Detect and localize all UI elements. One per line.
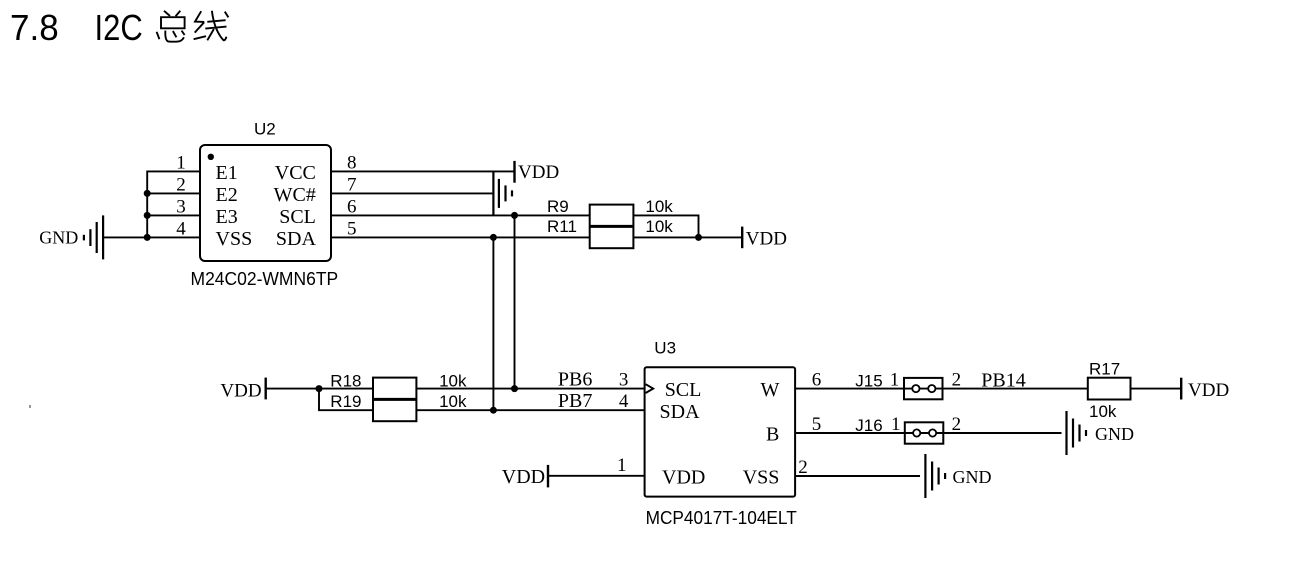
svg-text:10k: 10k xyxy=(439,371,467,390)
junction dot SCL bus xyxy=(511,212,518,219)
svg-text:I2C: I2C xyxy=(95,7,143,48)
svg-text:10k: 10k xyxy=(645,197,673,216)
ground for WC# xyxy=(493,171,512,215)
wire R9 out corner xyxy=(633,215,698,237)
svg-text:7.8: 7.8 xyxy=(10,7,59,48)
svg-text:PB6: PB6 xyxy=(558,369,592,391)
svg-text:10k: 10k xyxy=(439,392,467,411)
junction dot SDA bus xyxy=(490,234,497,241)
svg-text:5: 5 xyxy=(812,414,822,435)
svg-text:B: B xyxy=(766,424,779,446)
svg-text:2: 2 xyxy=(176,175,186,196)
jumper J15 xyxy=(904,378,943,399)
svg-text:U3: U3 xyxy=(654,339,676,358)
svg-text:WC#: WC# xyxy=(274,184,316,206)
wire GND to bus xyxy=(104,236,147,238)
svg-text:3: 3 xyxy=(176,197,186,218)
power VDD far right bar xyxy=(1180,378,1182,400)
svg-text:U2: U2 xyxy=(254,120,276,139)
wire WC# pin7 to ground xyxy=(331,192,492,194)
svg-text:R18: R18 xyxy=(330,371,361,390)
wire R18 to U3 SCL xyxy=(416,388,644,390)
wire W pin6 to J15 xyxy=(795,388,904,390)
resistor R17 xyxy=(1088,378,1131,400)
ground GND left symbol xyxy=(84,215,103,259)
svg-text:4: 4 xyxy=(176,219,186,240)
svg-text:W: W xyxy=(761,379,780,401)
svg-text:GND: GND xyxy=(39,228,78,248)
svg-text:6: 6 xyxy=(812,370,822,391)
wire VCC pin8 to VDD xyxy=(331,170,514,172)
wire VSS stub xyxy=(147,236,200,238)
svg-text:E2: E2 xyxy=(216,184,238,206)
svg-text:VDD: VDD xyxy=(746,228,787,249)
svg-text:VDD: VDD xyxy=(502,466,545,488)
wire SCL pin6 to R9 xyxy=(331,214,590,216)
svg-text:MCP4017T-104ELT: MCP4017T-104ELT xyxy=(646,508,797,528)
svg-text:M24C02-WMN6TP: M24C02-WMN6TP xyxy=(191,269,339,289)
svg-text:SDA: SDA xyxy=(276,228,317,250)
U3 clock chevron SCL xyxy=(646,384,654,393)
power VDD left of R18 bar xyxy=(265,378,267,400)
svg-text:5: 5 xyxy=(347,219,357,240)
IC U2 box xyxy=(200,145,331,261)
svg-text:R17: R17 xyxy=(1089,359,1120,378)
svg-text:1: 1 xyxy=(890,370,900,391)
svg-text:6: 6 xyxy=(347,197,357,218)
ground for VSS xyxy=(925,454,945,498)
svg-text:VDD: VDD xyxy=(1188,380,1229,401)
svg-text:J15: J15 xyxy=(855,372,882,391)
wire R11 out to VDD xyxy=(633,236,741,238)
resistor pack R9 R11 xyxy=(590,205,634,249)
svg-text:PB7: PB7 xyxy=(558,390,592,412)
IC U3 box xyxy=(645,367,796,496)
power VDD right bar xyxy=(741,227,743,249)
svg-text:SCL: SCL xyxy=(665,379,702,401)
svg-text:VCC: VCC xyxy=(275,162,316,184)
svg-text:E3: E3 xyxy=(216,206,238,228)
wire J15 to R17 xyxy=(943,388,1088,390)
svg-text:8: 8 xyxy=(347,153,357,174)
wire SCL bus vertical xyxy=(514,215,516,388)
svg-text:J16: J16 xyxy=(855,416,882,435)
U2 pin-1 indicator dot xyxy=(208,154,214,160)
svg-text:2: 2 xyxy=(952,370,962,391)
svg-text:R19: R19 xyxy=(330,392,361,411)
svg-text:1: 1 xyxy=(617,455,627,476)
junction dot R9R11 xyxy=(695,234,702,241)
svg-text:2: 2 xyxy=(952,414,962,435)
svg-text:10k: 10k xyxy=(1089,402,1117,421)
junction dot E2 xyxy=(144,190,151,197)
wire R17 to VDD xyxy=(1131,388,1181,390)
svg-text:1: 1 xyxy=(176,153,186,174)
svg-text:4: 4 xyxy=(619,391,629,412)
wire E1 bus left xyxy=(147,171,200,237)
wire down to R19 xyxy=(319,389,373,411)
svg-text:3: 3 xyxy=(619,370,629,391)
junction dot SCL at PB6 xyxy=(511,385,518,392)
wire VDD to R18 xyxy=(266,388,373,390)
power VDD top bar xyxy=(513,161,515,183)
svg-text:10k: 10k xyxy=(645,217,673,236)
svg-text:SCL: SCL xyxy=(279,206,316,228)
wire VSS pin2 to GND xyxy=(795,475,920,477)
svg-text:GND: GND xyxy=(953,467,992,487)
svg-text:2: 2 xyxy=(798,457,808,478)
svg-text:GND: GND xyxy=(1095,424,1134,444)
svg-text:7: 7 xyxy=(347,175,357,196)
wire B pin5 to J16 xyxy=(795,432,905,434)
svg-text:VDD: VDD xyxy=(220,380,261,401)
svg-text:E1: E1 xyxy=(216,162,238,184)
svg-text:VDD: VDD xyxy=(662,467,705,489)
power VDD pin1 bar xyxy=(547,465,549,488)
wire SDA bus vertical xyxy=(492,237,494,410)
svg-text:SDA: SDA xyxy=(660,401,701,423)
svg-text:R9: R9 xyxy=(547,197,569,216)
wire SDA pin5 to R11 xyxy=(331,236,590,238)
junction dot R18R19 input xyxy=(316,385,323,392)
wire R19 to U3 SDA xyxy=(416,409,644,411)
jumper J16 xyxy=(905,422,944,443)
junction dot E3 xyxy=(144,212,151,219)
wire E3 stub xyxy=(147,214,200,216)
stray speck xyxy=(29,405,31,408)
wire E2 stub xyxy=(147,192,200,194)
title 7.8 I2C xyxy=(10,7,143,48)
junction dot VSS xyxy=(144,234,151,241)
wire J16 to GND xyxy=(943,432,1061,434)
wire VDD to U3 pin1 xyxy=(548,475,645,477)
title CJK 线 xyxy=(194,11,229,41)
junction dot SDA at PB7 xyxy=(490,407,497,414)
svg-text:VSS: VSS xyxy=(216,228,253,250)
svg-text:VDD: VDD xyxy=(518,162,559,183)
ground for J16 xyxy=(1067,411,1087,455)
resistor pack R18 R19 xyxy=(373,378,416,422)
svg-text:R11: R11 xyxy=(547,217,577,236)
svg-text:1: 1 xyxy=(891,414,901,435)
title CJK 总 xyxy=(157,11,185,42)
svg-text:VSS: VSS xyxy=(743,467,780,489)
